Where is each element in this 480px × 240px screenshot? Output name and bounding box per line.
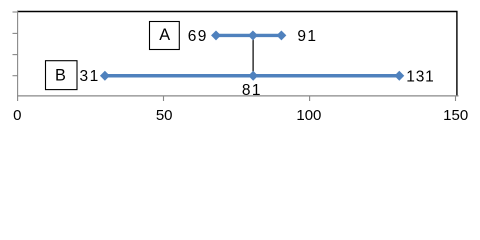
x axis tick 100 bbox=[309, 96, 311, 101]
svg-text:81: 81 bbox=[242, 82, 262, 99]
svg-text:0: 0 bbox=[13, 107, 21, 124]
legend box B bbox=[46, 61, 78, 90]
series B marker 81 (center) bbox=[248, 71, 258, 81]
x axis tick 50 bbox=[163, 96, 165, 101]
x axis line bbox=[17, 95, 459, 97]
y axis line bbox=[17, 11, 19, 97]
x axis tick 150 bbox=[455, 96, 457, 101]
svg-text:B: B bbox=[55, 67, 66, 85]
series A marker 81 (center) bbox=[248, 30, 258, 40]
svg-text:91: 91 bbox=[297, 28, 317, 45]
plot area right border bbox=[456, 11, 458, 96]
svg-text:131: 131 bbox=[406, 68, 434, 85]
series A marker 69 bbox=[211, 30, 221, 40]
series A line 69-91 bbox=[216, 34, 281, 37]
y axis tick y=12 bbox=[13, 11, 18, 13]
svg-text:A: A bbox=[159, 26, 170, 44]
svg-text:100: 100 bbox=[296, 107, 321, 124]
legend box A bbox=[150, 22, 180, 50]
series A marker 91 bbox=[276, 30, 286, 40]
series B marker 131 bbox=[394, 71, 404, 81]
svg-text:50: 50 bbox=[156, 107, 173, 124]
series B line 31-131 bbox=[105, 74, 399, 78]
svg-text:150: 150 bbox=[443, 107, 468, 124]
svg-text:31: 31 bbox=[80, 68, 100, 85]
x axis tick 0 bbox=[17, 96, 19, 101]
y axis tick y=75 bbox=[13, 75, 18, 77]
series B marker 31 bbox=[100, 71, 110, 81]
y axis tick y=54 bbox=[13, 54, 18, 56]
connector line between A and B centers bbox=[252, 36, 254, 75]
y axis tick y=33 bbox=[13, 32, 18, 34]
svg-text:69: 69 bbox=[188, 28, 208, 45]
plot area top border bbox=[17, 11, 458, 13]
